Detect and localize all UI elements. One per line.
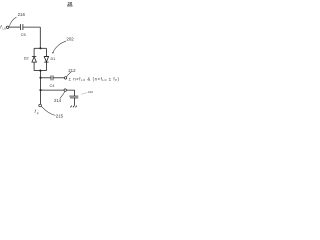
svg-text:C4: C4 (50, 84, 55, 88)
svg-text:D2: D2 (24, 57, 29, 61)
svg-text:± n×fLO & (n×fLO ± fP): ± n×fLO & (n×fLO ± fP) (69, 76, 120, 82)
svg-text:LO: LO (3, 27, 7, 31)
svg-text:20: 20 (68, 1, 73, 6)
svg-text:C5: C5 (21, 32, 27, 37)
svg-text:214: 214 (54, 98, 62, 103)
svg-text:212: 212 (68, 68, 76, 73)
svg-text:215: 215 (56, 114, 64, 119)
svg-text:202: 202 (66, 36, 74, 41)
svg-text:210: 210 (88, 90, 93, 94)
svg-text:P: P (37, 111, 39, 115)
svg-text:216: 216 (18, 12, 26, 17)
svg-text:D1: D1 (51, 57, 56, 61)
